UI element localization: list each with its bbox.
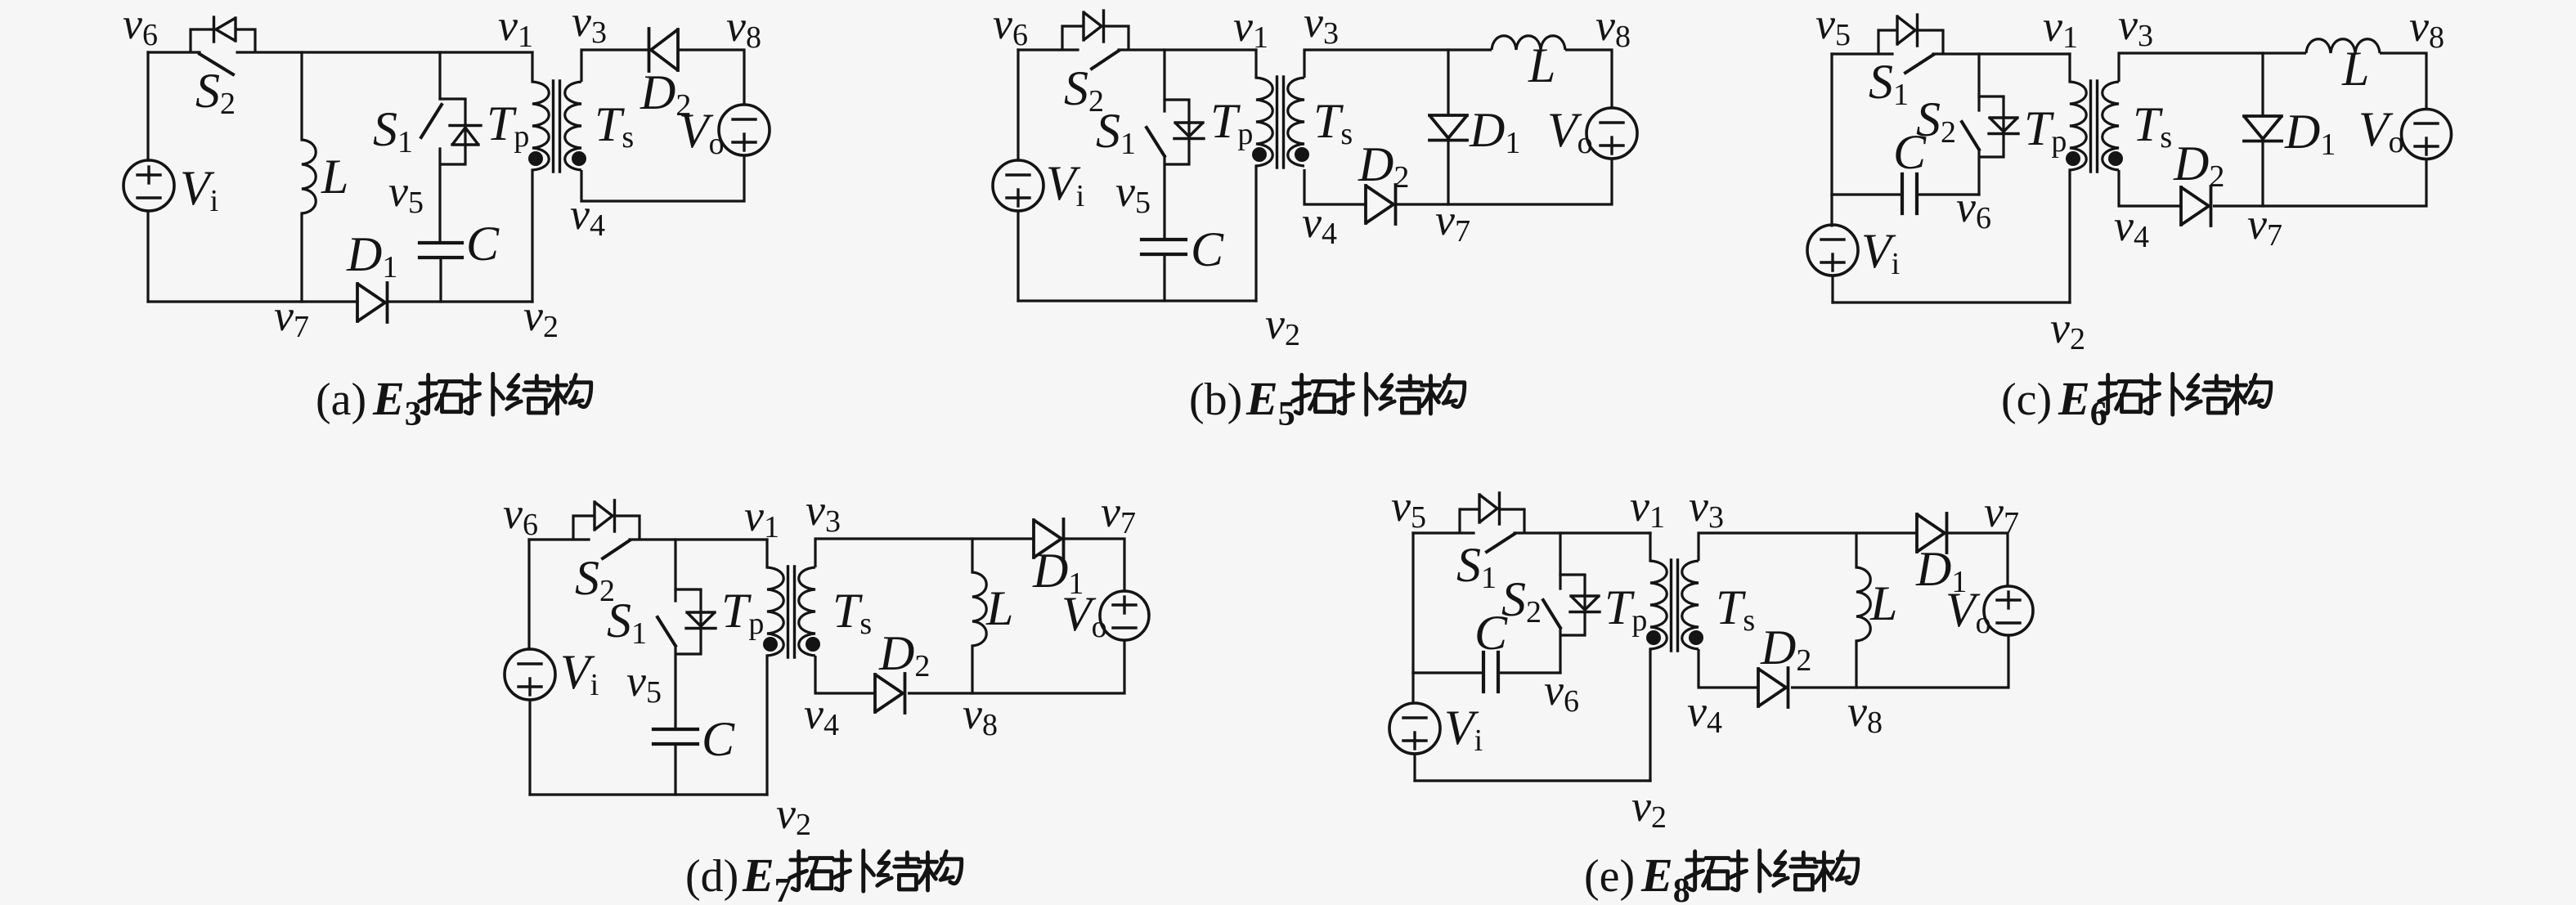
transformer secondary winding Ts (d) [799, 567, 815, 656]
wire b: S1 upper stub [1163, 50, 1165, 111]
diode D1 (c), pointing down [2244, 116, 2282, 141]
wire e: v1 corner down to Tp coil [1649, 533, 1651, 561]
inductor L (b) in secondary top rail [1492, 36, 1565, 50]
wire e: D1 to v7 corner [1947, 533, 2008, 586]
wire d: bottom rail to v2 corner [530, 793, 767, 795]
switch S2 blade (e) [1543, 600, 1560, 628]
svg-text:Ts: Ts [595, 97, 634, 155]
wire a: S1 diode loop right leg [440, 99, 465, 164]
svg-text:Ts: Ts [832, 584, 872, 641]
diode D1 (d) in secondary top rail, pointing right [1034, 519, 1064, 558]
wire c: top rail left segment from v5 corner [1832, 52, 1892, 55]
diode D1 (b), pointing down [1429, 115, 1467, 141]
wire b: left vertical bottom [1016, 211, 1019, 301]
svg-text:(a): (a) [316, 374, 366, 425]
wire d: capacitor bottom to v2 rail [674, 744, 676, 795]
wire a: S2 bypass loop right half [236, 29, 255, 52]
svg-text:v1: v1 [498, 1, 533, 54]
diode D2 (c) in secondary bottom rail, pointing right [2181, 186, 2211, 226]
wire b: L to v8 corner [1565, 50, 1612, 108]
wire c: S2 lower terminal to C row [1977, 150, 1980, 195]
voltage source Vo (b), - top [1586, 108, 1637, 159]
transformer secondary winding Ts (c) [2103, 82, 2119, 170]
svg-text:(d): (d) [685, 851, 738, 902]
svg-text:Vo: Vo [1945, 583, 1991, 640]
wire d: Ts top to v3 corner and top rail to D1 [815, 539, 1034, 567]
svg-text:Vi: Vi [180, 161, 218, 218]
svg-text:E3: E3 [372, 372, 422, 433]
svg-text:L: L [2341, 42, 2369, 96]
svg-text:Vo: Vo [2358, 102, 2404, 159]
voltage source Vo (d), + top [1100, 591, 1149, 640]
transformer primary winding Tp (b) [1256, 78, 1272, 166]
svg-text:v1: v1 [1233, 2, 1268, 55]
diode D2 (e) in secondary bottom rail, pointing right [1758, 668, 1788, 707]
wire a: left vertical bottom (Vi- to v7 rail) [146, 211, 149, 302]
diode across S1 (e), pointing right [1479, 493, 1500, 524]
wire e: S2 diode loop top [1560, 573, 1585, 576]
wire b: bottom rail to v2 corner [1018, 299, 1256, 302]
transformer core (b) [1277, 77, 1284, 168]
inductor L (d) [972, 572, 986, 646]
svg-text:Tp: Tp [1604, 580, 1647, 638]
wire d: S2 bypass loop right [615, 516, 640, 540]
transformer primary winding Tp (c) [2070, 82, 2086, 170]
transformer primary winding Tp (a) [532, 82, 549, 170]
wire b: Ts top to v3 corner and top rail to L [1304, 50, 1492, 78]
svg-text:Ts: Ts [2133, 97, 2172, 155]
wire c: S1 bypass loop left [1878, 30, 1897, 54]
switch S2 blade (d) [603, 540, 630, 558]
wire c: v1 corner down to Tp coil [2068, 54, 2071, 82]
svg-text:S1: S1 [1869, 55, 1909, 112]
body diode of S2 (e), pointing down [1570, 596, 1600, 612]
diode across S2 (d), pointing right [595, 500, 615, 531]
svg-text:v2: v2 [523, 291, 559, 344]
capacitor C (a) [420, 243, 462, 258]
svg-text:L: L [1528, 38, 1555, 92]
wire c: Vo bottom to bottom rail [2213, 159, 2426, 206]
wire c: bottom rail left of D2 to v4 corner [2119, 170, 2181, 206]
capacitor C (d) [653, 729, 698, 744]
wire b: Tp bottom to v2 corner [1254, 166, 1257, 301]
switch S2 blade (a) [200, 54, 233, 74]
transformer primary winding Tp (e) [1650, 561, 1667, 649]
svg-text:S1: S1 [607, 594, 647, 651]
wire d: S1 lower terminal down through v5 to capacitor [674, 646, 676, 729]
svg-text:Tp: Tp [1210, 94, 1253, 151]
wire a: v1 corner down to Tp coil [531, 52, 533, 82]
svg-text:v3: v3 [2118, 0, 2153, 53]
wire e: left vertical from v5 corner to C row [1411, 533, 1414, 673]
svg-text:D2: D2 [1760, 621, 1811, 678]
wire d: inductor branch upper stub [971, 539, 973, 572]
svg-text:v7: v7 [1984, 487, 2019, 540]
wire c: C row left segment [1832, 193, 1902, 195]
wire c: bottom rail to v2 corner [1833, 301, 2070, 303]
inductor L (a) [302, 140, 316, 213]
svg-text:v3: v3 [572, 0, 607, 50]
capacitor C (b) [1142, 240, 1186, 254]
svg-text:Tp: Tp [487, 96, 529, 154]
voltage source Vi (c), - top [1807, 225, 1858, 276]
polarity dot Tp (e) [1646, 630, 1661, 645]
wire b: S1 diode loop top [1165, 98, 1189, 101]
svg-text:v5: v5 [1115, 167, 1151, 220]
svg-text:v6: v6 [1956, 182, 1991, 235]
transformer core (d) [788, 567, 795, 657]
svg-text:Vi: Vi [1861, 224, 1900, 281]
wire e: C row right segment to S2 bottom [1498, 671, 1560, 674]
diode across S2 (b), pointing right [1084, 11, 1104, 42]
svg-text:L: L [321, 150, 348, 204]
svg-text:S1: S1 [1096, 104, 1136, 161]
svg-text:(c): (c) [2001, 374, 2052, 425]
caption (b) E5 topology [1189, 372, 1465, 433]
svg-text:(b): (b) [1189, 374, 1242, 425]
caption (a) E3 topology [316, 372, 591, 433]
caption (e) E8 topology [1584, 849, 1858, 905]
wire c: D1 branch upper [2261, 53, 2264, 116]
switch S2 blade (c) [1962, 122, 1979, 150]
polarity dot Tp (b) [1252, 147, 1267, 162]
wire a: inductor branch lower stub [300, 213, 303, 302]
wire d: S1 diode loop top [675, 588, 701, 590]
caption (d) E7 topology [685, 849, 962, 905]
wire a: S2 right terminal to v1 corner [237, 51, 532, 53]
svg-text:v4: v4 [804, 689, 839, 742]
svg-text:v4: v4 [570, 190, 605, 243]
wire a: D2 to v8 corner [678, 50, 744, 105]
wire b: Vo bottom to bottom rail [1397, 159, 1612, 204]
svg-text:v3: v3 [806, 486, 841, 539]
svg-text:v1: v1 [2043, 2, 2078, 55]
svg-text:L: L [1869, 576, 1897, 630]
wire e: inductor branch upper stub [1855, 533, 1857, 567]
body diode of S1 (a), pointing up [450, 126, 481, 146]
wire b: bottom rail left of D2 to v4 corner [1304, 169, 1366, 204]
wire a: bottom rail left of D1 [148, 300, 357, 302]
svg-text:Vo: Vo [679, 104, 725, 161]
voltage source Vo (c), - top [2402, 110, 2452, 159]
svg-text:D2: D2 [1358, 137, 1409, 195]
wire d: bottom rail left of D2 to v4 corner [815, 656, 875, 693]
switch S1 blade (e) [1487, 534, 1515, 552]
svg-text:v8: v8 [2409, 2, 2444, 55]
wire a: S1 lower terminal down to node v5 and capacitor [438, 149, 441, 243]
capacitor C (e) [1483, 652, 1498, 692]
wire b: top rail left segment from v6 corner [1018, 48, 1078, 51]
wire d: left vertical bottom [528, 700, 531, 795]
svg-text:v4: v4 [2114, 201, 2149, 254]
diode across S1 (c), pointing right [1897, 15, 1918, 46]
diode D2 (b) in secondary bottom rail, pointing right [1366, 185, 1396, 224]
svg-text:Vi: Vi [560, 645, 599, 702]
svg-text:Vi: Vi [1444, 701, 1483, 758]
svg-text:v8: v8 [726, 2, 761, 55]
polarity dot Ts (d) [806, 637, 820, 652]
svg-text:Tp: Tp [2024, 101, 2067, 159]
wire c: left vertical to Vi [1830, 195, 1833, 226]
wire e: Ts top to v3 corner and top rail to D1 [1699, 533, 1917, 561]
body diode of S1 (d), pointing down [686, 612, 716, 629]
polarity dot Tp (c) [2066, 151, 2080, 166]
voltage source Vo (e), + top [1984, 586, 2033, 635]
wire e: Vi bottom to bottom rail [1413, 754, 1416, 781]
svg-text:v5: v5 [388, 167, 424, 220]
polarity dot Tp (d) [763, 637, 778, 652]
svg-text:v5: v5 [1815, 0, 1851, 52]
switch S1 blade (c) [1905, 55, 1933, 73]
svg-text:v3: v3 [1304, 0, 1339, 51]
svg-text:v8: v8 [1847, 687, 1883, 740]
wire a: S1 upper stub from top rail [438, 52, 441, 99]
svg-text:v4: v4 [1687, 687, 1722, 740]
wire d: S2 bypass loop left [573, 516, 595, 540]
polarity dot Ts (b) [1295, 147, 1309, 162]
wire c: Ts top to v3 corner and top rail to L [2119, 53, 2306, 82]
svg-text:v4: v4 [1302, 198, 1337, 251]
wire e: left vertical to Vi [1411, 673, 1414, 703]
wire c: L to v8 corner [2380, 53, 2426, 110]
diode D2 (d) in secondary bottom rail, pointing right [875, 674, 905, 713]
svg-text:v6: v6 [993, 0, 1028, 52]
svg-text:D2: D2 [878, 626, 930, 683]
wire d: S1 diode loop right leg [675, 589, 701, 654]
wire b: top rail right of S2 to v1 corner [1119, 48, 1256, 51]
wire e: top rail right of S1 to v1 corner [1515, 531, 1650, 534]
svg-text:C: C [702, 712, 735, 766]
wire d: Tp bottom to v2 corner [765, 656, 768, 795]
wire c: S2 upper stub [1977, 54, 1980, 110]
switch S2 blade (b) [1092, 51, 1119, 69]
voltage source Vi (d), - top [505, 649, 555, 700]
svg-text:E8: E8 [1640, 849, 1690, 905]
polarity dot Ts (c) [2108, 151, 2123, 166]
svg-text:S2: S2 [1916, 92, 1956, 150]
svg-text:E5: E5 [1245, 372, 1295, 433]
wire c: S2 diode loop top [1979, 95, 2004, 97]
svg-text:v2: v2 [1265, 299, 1300, 352]
svg-text:D2: D2 [2173, 137, 2224, 194]
svg-text:Ts: Ts [1716, 580, 1755, 638]
wire c: S2 diode loop right leg [1979, 96, 2004, 157]
wire e: top rail left segment from v5 corner [1413, 531, 1474, 534]
wire d: inductor branch lower stub to v8 [971, 646, 973, 693]
transformer secondary winding Ts (a) [565, 82, 581, 170]
svg-text:S1: S1 [373, 102, 413, 159]
wire c: C row right segment to S2 bottom [1917, 193, 1979, 195]
wire d: left vertical top [527, 540, 530, 649]
svg-text:Vo: Vo [1061, 587, 1107, 644]
diode D1 (e) in secondary top rail, pointing right [1917, 513, 1947, 553]
wire e: bottom rail to v2 corner [1415, 779, 1650, 782]
wire b: S2 bypass loop right [1104, 26, 1129, 50]
svg-text:v2: v2 [776, 789, 811, 842]
caption (c) E6 topology [2001, 372, 2271, 433]
wire a: S1 diode loop top [440, 97, 465, 100]
svg-text:S1: S1 [1456, 538, 1497, 595]
voltage source Vo (a), - top [719, 105, 770, 155]
svg-text:v6: v6 [503, 489, 538, 542]
svg-text:v5: v5 [626, 656, 662, 710]
wire c: top rail right of S1 to v1 corner [1933, 52, 2070, 55]
wire b: D1 branch upper [1447, 50, 1449, 115]
inductor L (e) [1856, 567, 1870, 641]
transformer core (a) [554, 81, 560, 172]
wire a: Tp coil bottom down to v2 corner [531, 170, 533, 302]
diode across S2 (a), pointing left [214, 17, 236, 42]
voltage source Vi (e), - top [1389, 703, 1440, 754]
svg-text:v7: v7 [2247, 199, 2282, 253]
svg-text:S2: S2 [1501, 572, 1542, 629]
wire c: S1 bypass loop right [1919, 30, 1943, 54]
wire b: S1 lower terminal down through v5 to capacitor [1163, 156, 1165, 240]
polarity dot Ts (e) [1689, 630, 1703, 645]
wire b: D1 branch lower to v7 [1447, 141, 1449, 204]
svg-text:v7: v7 [1101, 487, 1136, 540]
wire e: bottom rail left of D2 to v4 corner [1699, 649, 1758, 688]
wire c: Vi bottom to bottom rail [1831, 276, 1833, 302]
wire e: S1 bypass loop left [1460, 509, 1479, 533]
wire e: Tp bottom to v2 corner [1649, 649, 1651, 781]
wire a: capacitor bottom to v2 rail [439, 258, 442, 302]
diode D2 (a) in secondary top rail, pointing left [649, 29, 679, 71]
svg-text:v1: v1 [1630, 482, 1665, 535]
svg-text:v8: v8 [1595, 1, 1631, 54]
svg-text:Vo: Vo [1547, 103, 1593, 160]
wire a: top-left from v6 corner to S2 left terminal [148, 51, 200, 53]
polarity dot Ts (a) [572, 151, 586, 166]
transformer secondary winding Ts (b) [1288, 78, 1304, 166]
wire b: S1 diode loop right leg [1165, 100, 1189, 164]
svg-text:v2: v2 [2050, 303, 2085, 356]
body diode of S2 (c), pointing down [1989, 118, 2018, 134]
svg-text:E7: E7 [742, 849, 792, 905]
svg-text:L: L [985, 581, 1013, 635]
svg-text:Tp: Tp [721, 584, 764, 641]
wire c: D1 branch lower to v7 [2261, 141, 2264, 206]
inductor L (c) in secondary top rail [2306, 39, 2380, 53]
voltage source Vi (a), + top [123, 160, 174, 211]
wire e: S1 bypass loop right [1500, 509, 1524, 533]
svg-text:(e): (e) [1584, 851, 1635, 902]
wire e: inductor branch lower stub to v8 [1855, 641, 1857, 688]
wire d: top rail left segment from v6 corner [529, 538, 589, 540]
wire d: Vo bottom to bottom rail [908, 640, 1124, 693]
svg-text:Vi: Vi [1046, 156, 1084, 213]
wire a: Vo bottom to secondary bottom rail [581, 155, 744, 201]
svg-text:C: C [466, 217, 500, 271]
wire e: S2 lower terminal to C row [1559, 628, 1561, 673]
svg-text:Ts: Ts [1313, 94, 1353, 151]
svg-text:v7: v7 [274, 291, 309, 344]
svg-text:v6: v6 [123, 0, 158, 52]
wire a: S2 bypass diode loop [191, 29, 214, 52]
svg-text:v5: v5 [1391, 482, 1426, 535]
transformer primary winding Tp (d) [767, 567, 783, 656]
switch S1 blade (b) [1147, 128, 1165, 156]
voltage source Vi (b), - top [993, 160, 1043, 211]
svg-text:D1: D1 [346, 227, 397, 284]
svg-text:D1: D1 [2284, 105, 2336, 162]
wire a: left vertical top (v6 to Vi+) [146, 52, 149, 160]
switch S1 blade (d) [657, 617, 675, 646]
wire a: Ts top to v3 corner and D2 anode [581, 50, 649, 82]
wire e: C row left segment [1413, 671, 1483, 674]
wire b: left vertical top [1016, 50, 1019, 160]
svg-text:v1: v1 [744, 491, 779, 544]
svg-text:v8: v8 [963, 689, 998, 742]
svg-text:D1: D1 [1469, 103, 1520, 160]
wire c: left vertical from v5 corner to C row [1830, 54, 1833, 195]
capacitor C (c) [1902, 174, 1917, 213]
wire a: inductor branch upper stub [300, 52, 303, 140]
wire d: S1 upper stub [674, 540, 676, 601]
wire c: Tp bottom to v2 corner [2068, 170, 2071, 302]
svg-text:v2: v2 [1631, 782, 1667, 835]
svg-text:v3: v3 [1689, 482, 1724, 535]
wire e: Vo bottom to bottom rail [1791, 635, 2008, 688]
wire b: capacitor bottom to v2 rail [1163, 254, 1165, 301]
wire b: v1 corner down to Tp coil [1254, 50, 1257, 78]
wire a: bottom rail right of D1 to v2 corner [388, 300, 532, 302]
body diode of S1 (b), pointing down [1174, 123, 1204, 139]
wire d: D1 to v7 corner [1064, 539, 1124, 591]
wire d: v1 corner down to Tp coil [765, 540, 768, 567]
wire b: S2 bypass loop left [1062, 26, 1084, 50]
wire e: S2 upper stub [1559, 533, 1561, 589]
transformer secondary winding Ts (e) [1682, 561, 1699, 649]
wire d: top rail right of S2 to v1 corner [630, 538, 767, 540]
svg-text:C: C [1191, 222, 1224, 276]
polarity dot Tp (a) [528, 151, 543, 166]
wire e: S2 diode loop right leg [1560, 575, 1585, 635]
switch S1 blade (a) [421, 105, 442, 137]
transformer core (c) [2091, 81, 2098, 172]
transformer core (e) [1672, 560, 1678, 651]
diode D1 (a) in bottom rail, pointing right [357, 283, 388, 322]
